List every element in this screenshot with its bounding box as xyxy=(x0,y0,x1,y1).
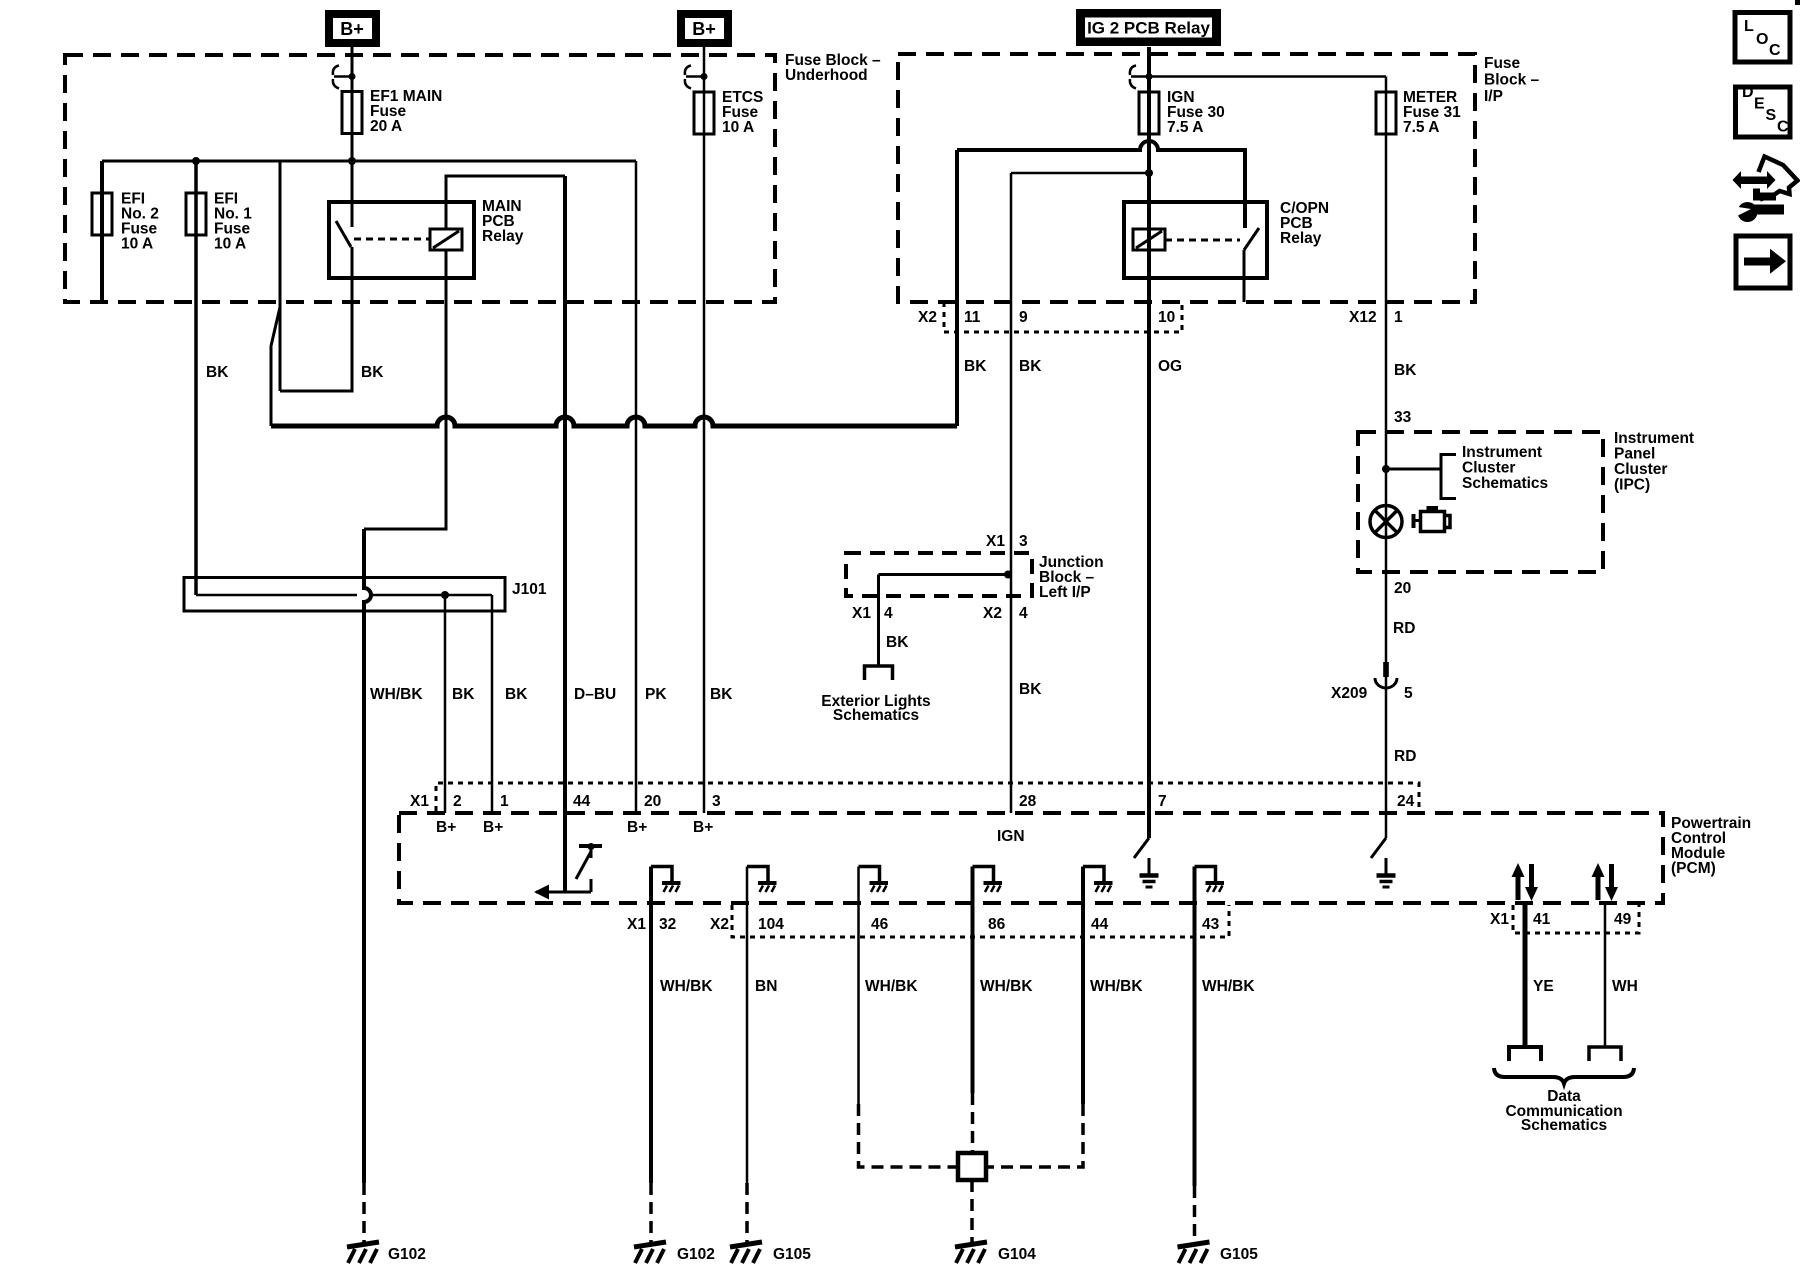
svg-text:WH: WH xyxy=(1612,978,1638,995)
wire splice box dashed to G104 xyxy=(970,1180,974,1243)
svg-text:10 A: 10 A xyxy=(214,236,246,253)
svg-text:7.5 A: 7.5 A xyxy=(1167,119,1203,136)
wire bus riser to IGN feed xyxy=(955,150,959,426)
svg-text:IG 2 PCB Relay: IG 2 PCB Relay xyxy=(1087,19,1210,38)
bracket Instrument Cluster Schematics link xyxy=(1386,453,1456,500)
wire METER fuse branch xyxy=(1149,75,1386,78)
wire J101 internal strap left xyxy=(196,594,357,597)
svg-text:BK: BK xyxy=(361,364,384,381)
svg-text:20: 20 xyxy=(644,793,661,810)
svg-text:10 A: 10 A xyxy=(121,236,153,253)
wire BK pin 2 from J101 xyxy=(444,595,447,813)
up-down arrows pin 49 xyxy=(1592,863,1619,901)
relay C/OPN PCB box xyxy=(1124,202,1267,278)
svg-text:C: C xyxy=(1777,119,1789,136)
wire IGN fuse to PCM pin 7 xyxy=(1147,47,1151,838)
svg-text:B+: B+ xyxy=(627,819,647,836)
label IGN fuse 30 xyxy=(1167,89,1225,136)
svg-text:RD: RD xyxy=(1394,748,1416,765)
wire B+ feed to EF1 MAIN fuse xyxy=(351,47,354,227)
PCM internal switch pin 7 xyxy=(1134,838,1149,858)
fuse EF1 MAIN 20A xyxy=(342,92,362,134)
clip connector at EF1 MAIN fuse xyxy=(333,66,356,89)
ground hook pin 104 xyxy=(747,867,777,893)
fuse ETCS 10A xyxy=(694,92,714,134)
svg-text:BN: BN xyxy=(755,978,777,995)
junction dot EFI No.1 xyxy=(192,157,200,165)
svg-text:2: 2 xyxy=(453,793,462,810)
svg-text:G105: G105 xyxy=(1220,1246,1258,1263)
fork connector WH data line xyxy=(1589,1047,1621,1061)
label C/OPN PCB Relay xyxy=(1280,200,1329,247)
svg-text:Cluster: Cluster xyxy=(1614,461,1667,478)
svg-text:33: 33 xyxy=(1394,409,1412,426)
svg-text:104: 104 xyxy=(758,916,784,933)
wire ETCS B+ to pin 3 xyxy=(703,47,706,813)
wire junction block strap xyxy=(879,573,1012,576)
svg-text:32: 32 xyxy=(659,916,676,933)
svg-text:B+: B+ xyxy=(692,19,716,39)
svg-text:44: 44 xyxy=(573,793,591,810)
svg-text:28: 28 xyxy=(1019,793,1037,810)
svg-text:49: 49 xyxy=(1614,911,1632,928)
wire WH/BK pin 44 drop xyxy=(1081,867,1085,1105)
svg-text:BK: BK xyxy=(505,686,528,703)
page corner mark xyxy=(1795,0,1800,5)
svg-text:WH/BK: WH/BK xyxy=(980,978,1033,995)
svg-text:3: 3 xyxy=(712,793,721,810)
ground hook pin 86 xyxy=(973,867,1003,893)
svg-text:E: E xyxy=(1754,96,1765,113)
splice bar J101 xyxy=(184,578,505,612)
check engine icon xyxy=(1412,508,1451,532)
svg-text:46: 46 xyxy=(871,916,889,933)
wire WH/BK pin 46 drop xyxy=(857,867,860,1105)
svg-text:Schematics: Schematics xyxy=(833,707,919,724)
icon DESC box xyxy=(1736,84,1791,137)
IG 2 PCB Relay title box xyxy=(1076,9,1221,46)
svg-text:BK: BK xyxy=(206,364,229,381)
fuse block I/P dashed box xyxy=(898,54,1475,302)
svg-text:D–BU: D–BU xyxy=(574,686,616,703)
B+ terminal box 2 xyxy=(677,10,732,47)
PCM internal B+ switch and arrow xyxy=(534,843,602,900)
junction dot junction block xyxy=(1004,571,1012,579)
relay MAIN PCB switch blade xyxy=(336,221,351,247)
svg-text:G102: G102 xyxy=(388,1246,426,1263)
svg-text:BK: BK xyxy=(1394,362,1417,379)
connector X1 41/49 pin box (PCM bottom right) xyxy=(1513,905,1639,933)
svg-text:O: O xyxy=(1756,31,1768,48)
fork connector exterior lights xyxy=(865,666,893,680)
wire YE pin 41 xyxy=(1523,903,1528,1047)
svg-text:24: 24 xyxy=(1397,793,1415,810)
wire METER fuse to PCM pin 24 xyxy=(1385,77,1388,839)
svg-text:X1: X1 xyxy=(410,793,429,810)
wire WH/BK trunk to G102 xyxy=(364,529,371,1183)
svg-text:IGN: IGN xyxy=(997,828,1025,845)
svg-text:X1: X1 xyxy=(852,605,871,622)
svg-text:BK: BK xyxy=(710,686,733,703)
svg-text:WH/BK: WH/BK xyxy=(1202,978,1255,995)
ground G104 xyxy=(955,1242,987,1263)
label Instrument Panel Cluster IPC xyxy=(1614,430,1694,494)
svg-text:41: 41 xyxy=(1533,911,1551,928)
label Instrument Cluster Schematics xyxy=(1462,444,1548,492)
wire BN pin 104 to G105 xyxy=(746,867,749,1184)
wire BK pin 9 branch xyxy=(1011,172,1149,175)
PCM dashed box xyxy=(399,813,1663,903)
junction block Left I/P dashed box xyxy=(846,553,1032,596)
svg-text:Relay: Relay xyxy=(482,228,524,245)
svg-text:3: 3 xyxy=(1019,533,1028,550)
connector X209 inline xyxy=(1375,662,1397,688)
wire BK pin 1 from J101 xyxy=(491,595,494,813)
wire BK exterior lights drop xyxy=(877,575,880,667)
wire D-BU pin 44 drop xyxy=(563,176,567,892)
clip connector at ETCS fuse xyxy=(685,66,708,89)
svg-text:Underhood: Underhood xyxy=(785,67,868,84)
power ground pin 24 xyxy=(1377,858,1396,887)
svg-text:L: L xyxy=(1744,18,1754,35)
clip connector at IGN fuse xyxy=(1130,66,1153,89)
wire EFI No.2 fuse stub xyxy=(100,161,104,302)
svg-text:WH/BK: WH/BK xyxy=(370,686,423,703)
fuse METER Fuse 31 xyxy=(1376,92,1396,134)
svg-text:Block –: Block – xyxy=(1484,72,1540,89)
wire MAIN relay coil bottom xyxy=(364,250,446,529)
wire MAIN relay coil top link xyxy=(446,176,565,229)
ground hook pin 43 xyxy=(1195,867,1225,893)
svg-text:S: S xyxy=(1766,107,1777,124)
svg-text:RD: RD xyxy=(1393,620,1415,637)
icon schematic reference arrows and wrench xyxy=(1733,157,1798,223)
svg-text:G104: G104 xyxy=(998,1246,1036,1263)
connector X1 pin row (PCM top) xyxy=(436,783,1419,811)
svg-text:OG: OG xyxy=(1158,358,1182,375)
ground hook pin 32 xyxy=(651,867,681,893)
indicator lamp symbol xyxy=(1370,506,1402,538)
svg-text:Panel: Panel xyxy=(1614,446,1655,463)
svg-text:(PCM): (PCM) xyxy=(1671,860,1716,877)
wire WH/BK pin 86 drop xyxy=(971,867,975,1094)
B+ terminal box 1 xyxy=(325,10,380,47)
label Fuse Block I/P xyxy=(1484,55,1540,105)
svg-text:BK: BK xyxy=(964,358,987,375)
brace data communication xyxy=(1494,1068,1634,1084)
svg-text:1: 1 xyxy=(500,793,509,810)
svg-text:20 A: 20 A xyxy=(370,118,402,135)
wire C/OPN relay switch stub xyxy=(1243,250,1246,302)
ground G105 mid xyxy=(730,1242,762,1263)
relay MAIN PCB actuation dashed link xyxy=(354,238,430,241)
svg-text:Fuse: Fuse xyxy=(1484,55,1521,72)
svg-text:Left I/P: Left I/P xyxy=(1039,584,1091,601)
junction dot IPC branch xyxy=(1382,465,1390,473)
svg-text:C: C xyxy=(1769,42,1781,59)
svg-text:1: 1 xyxy=(1394,309,1403,326)
power ground pin 7 xyxy=(1140,858,1159,887)
relay C/OPN PCB switch blade xyxy=(1244,228,1259,250)
label Junction Block Left I/P xyxy=(1039,554,1104,601)
fork connector YE data line xyxy=(1509,1047,1541,1061)
wire EF1 MAIN relay switch output xyxy=(280,247,352,391)
label MAIN PCB Relay xyxy=(482,198,524,245)
svg-text:G105: G105 xyxy=(773,1246,811,1263)
svg-text:7.5 A: 7.5 A xyxy=(1403,119,1439,136)
svg-text:11: 11 xyxy=(964,309,981,326)
svg-text:X209: X209 xyxy=(1331,685,1368,702)
svg-text:44: 44 xyxy=(1091,916,1109,933)
ground hook pin 46 xyxy=(859,867,889,893)
svg-text:10: 10 xyxy=(1158,309,1175,326)
svg-text:X2: X2 xyxy=(710,916,729,933)
svg-text:WH/BK: WH/BK xyxy=(660,978,713,995)
svg-text:I/P: I/P xyxy=(1484,88,1503,105)
connector X2 pin row (PCM bottom) xyxy=(732,905,1229,937)
relay MAIN PCB box xyxy=(329,202,474,278)
svg-text:D: D xyxy=(1742,84,1754,101)
svg-text:43: 43 xyxy=(1202,916,1220,933)
svg-text:J101: J101 xyxy=(512,581,547,598)
wire BK pin 9 drop xyxy=(1010,173,1013,813)
connector X2 pin box (fuse block I/P bottom) xyxy=(944,302,1182,332)
wire WH/BK dashed stub to G102 xyxy=(362,1183,366,1243)
up-down arrows pin 41 xyxy=(1512,863,1539,901)
junction dot EF1/rail xyxy=(348,157,356,165)
svg-text:5: 5 xyxy=(1404,685,1413,702)
svg-text:X1: X1 xyxy=(1490,911,1509,928)
junction dot IGN/pin9 branch xyxy=(1145,169,1153,177)
svg-text:X12: X12 xyxy=(1349,309,1377,326)
ground G102 mid xyxy=(634,1242,666,1263)
label Powertrain Control Module PCM xyxy=(1671,815,1751,877)
svg-text:B+: B+ xyxy=(436,819,456,836)
wire WH/BK pin 86 dashed to splice box xyxy=(971,1093,975,1153)
relay C/OPN PCB actuation dashed link xyxy=(1165,239,1240,242)
svg-text:20: 20 xyxy=(1394,580,1411,597)
svg-text:WH/BK: WH/BK xyxy=(865,978,918,995)
svg-text:Schematics: Schematics xyxy=(1521,1117,1607,1134)
svg-text:10 A: 10 A xyxy=(722,119,754,136)
IPC dashed box xyxy=(1358,432,1603,572)
label Fuse Block Underhood xyxy=(785,52,881,84)
svg-text:B+: B+ xyxy=(483,819,503,836)
wire J101 internal strap right xyxy=(371,594,492,597)
junction dot J101 strap xyxy=(441,591,449,599)
wire horizontal feed rail y161 xyxy=(102,160,636,163)
wire bus thick horizontal with hops xyxy=(271,417,957,426)
svg-text:Relay: Relay xyxy=(1280,230,1322,247)
wire EFI No.1 fuse to J101 xyxy=(194,161,198,595)
fuse block Underhood dashed box xyxy=(65,55,775,302)
svg-text:4: 4 xyxy=(1019,605,1028,622)
relay MAIN PCB coil xyxy=(430,229,462,250)
svg-text:PK: PK xyxy=(645,686,667,703)
svg-text:X2: X2 xyxy=(983,605,1002,622)
svg-text:86: 86 xyxy=(988,916,1006,933)
wire PK pin 20 drop xyxy=(635,161,638,813)
fuse EFI No.2 10A xyxy=(92,193,112,235)
svg-text:4: 4 xyxy=(884,605,893,622)
label METER fuse 31 xyxy=(1403,89,1461,136)
svg-text:YE: YE xyxy=(1533,978,1554,995)
svg-text:B+: B+ xyxy=(693,819,713,836)
icon LOC box xyxy=(1735,13,1790,63)
wire WH/BK pin 46 dashed to splice box xyxy=(859,1104,959,1167)
ground G102 left xyxy=(347,1242,379,1263)
svg-text:Schematics: Schematics xyxy=(1462,475,1548,492)
wire diagonal split to bus corner xyxy=(271,307,280,426)
svg-text:Instrument: Instrument xyxy=(1614,430,1694,447)
PCM internal switch pin 24 xyxy=(1371,838,1386,858)
svg-text:BK: BK xyxy=(1019,681,1042,698)
ground G105 right xyxy=(1178,1242,1210,1263)
wire branch at node to bus xyxy=(279,161,282,391)
svg-text:7: 7 xyxy=(1158,793,1167,810)
svg-text:(IPC): (IPC) xyxy=(1614,477,1650,494)
wire WH pin 49 xyxy=(1604,903,1607,1047)
fuse EFI No.1 10A xyxy=(186,193,206,235)
svg-text:X2: X2 xyxy=(918,309,937,326)
wire IGN feed horizontal with hop to C/OPN switch xyxy=(957,141,1245,228)
relay C/OPN PCB coil xyxy=(1133,229,1165,250)
svg-text:BK: BK xyxy=(886,634,909,651)
wire WH/BK pin 43 to G105 xyxy=(1193,867,1197,1187)
label EFI No.2 fuse xyxy=(121,191,159,253)
label EF1 MAIN fuse xyxy=(370,88,442,135)
svg-text:X1: X1 xyxy=(627,916,646,933)
splice box S-connector xyxy=(958,1153,986,1180)
svg-text:BK: BK xyxy=(452,686,475,703)
wire WH/BK pin 44 dashed to splice box xyxy=(986,1104,1083,1167)
svg-text:9: 9 xyxy=(1019,309,1028,326)
svg-text:G102: G102 xyxy=(677,1246,715,1263)
svg-text:X1: X1 xyxy=(986,533,1005,550)
label EFI No.1 fuse xyxy=(214,191,252,253)
icon forward arrow box xyxy=(1736,236,1790,288)
ground hook pin 44 xyxy=(1083,867,1113,893)
fuse IGN Fuse 30 xyxy=(1139,92,1159,134)
svg-text:B+: B+ xyxy=(340,19,364,39)
svg-text:BK: BK xyxy=(1019,358,1042,375)
wire WH/BK pin 32 to G102 xyxy=(649,867,653,1184)
svg-text:Instrument: Instrument xyxy=(1462,444,1542,461)
label ETCS fuse xyxy=(722,89,763,136)
svg-text:WH/BK: WH/BK xyxy=(1090,978,1143,995)
svg-text:Cluster: Cluster xyxy=(1462,460,1515,477)
